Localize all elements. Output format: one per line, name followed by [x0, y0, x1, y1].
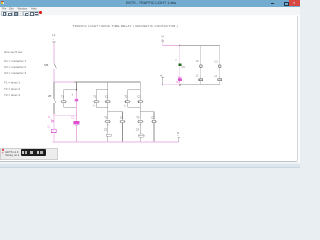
svg-text:T1 = timer 1: T1 = timer 1 — [4, 81, 20, 85]
svg-text:T2: T2 — [104, 116, 108, 120]
svg-text:C1: C1 — [47, 125, 51, 128]
svg-text:L3: L3 — [214, 75, 217, 78]
svg-text:time set 5 sec: time set 5 sec — [4, 50, 23, 54]
menu bar — [0, 7, 300, 11]
svg-text:C1: C1 — [105, 96, 109, 99]
wire lamp top bus — [180, 45, 220, 47]
svg-text:C3: C3 — [136, 128, 140, 132]
lamp rung 1 (pink, lit) — [179, 46, 181, 85]
wire supply vertical (pink) — [53, 42, 55, 63]
svg-text:T1: T1 — [48, 116, 51, 119]
maximize — [284, 2, 289, 6]
svg-text:L2: L2 — [196, 74, 199, 77]
svg-text:L1: L1 — [53, 33, 56, 37]
wire bus drop to loop1 — [75, 82, 77, 90]
red status icon — [2, 149, 4, 151]
svg-text:2B: 2B — [48, 94, 51, 98]
svg-text:C2: C2 — [104, 128, 108, 132]
svg-text:C1: C1 — [71, 116, 75, 119]
bottom window strip — [0, 162, 300, 169]
legend — [4, 50, 26, 97]
pushbutton 2B on left rung — [53, 82, 55, 99]
title bar — [0, 0, 300, 7]
svg-text:C2: C2 — [196, 60, 200, 63]
loop2 frame — [96, 90, 108, 107]
schematic SVG — [0, 0, 300, 168]
node junction — [53, 113, 54, 114]
wire top bus pink part — [54, 81, 74, 83]
loop1 frame — [64, 90, 77, 107]
app icon — [1, 1, 4, 4]
bottom bus pink — [53, 141, 179, 143]
svg-text:Deney no:1: Deney no:1 — [6, 153, 20, 157]
svg-text:C2 = contactor 2: C2 = contactor 2 — [4, 65, 26, 69]
svg-text:b: b — [72, 94, 74, 97]
toolbar — [0, 10, 300, 15]
svg-text:b: b — [124, 105, 126, 108]
dark control bar — [21, 149, 46, 156]
wire below loop1 — [75, 107, 77, 121]
node junction lamp bus — [162, 84, 163, 85]
svg-text:TRAFFIC LIGHT USING TIME RELAY: TRAFFIC LIGHT USING TIME RELAY ( MAGNETI… — [73, 24, 179, 28]
wire lamp top bus pink part — [163, 45, 180, 47]
red record circle — [39, 11, 42, 14]
window frame — [0, 0, 300, 168]
terminal N right end — [177, 137, 180, 142]
svg-text:C2: C2 — [137, 96, 141, 99]
title text — [126, 1, 186, 6]
wire below S/B (pink) — [53, 69, 55, 82]
wire top bus gray part — [74, 82, 140, 90]
canvas — [0, 16, 298, 162]
close button — [289, 0, 300, 6]
lamp rung 3 — [219, 46, 221, 85]
wire bus drop to loop2 — [107, 82, 109, 90]
svg-text:S/B: S/B — [44, 63, 48, 67]
svg-text:C3 = contactor 3: C3 = contactor 3 — [4, 71, 26, 75]
svg-text:C1: C1 — [182, 66, 186, 69]
bottom status panel — [0, 148, 58, 160]
svg-text:TL1: TL1 — [176, 81, 181, 84]
status text — [0, 146, 60, 160]
lamp TL1 lit (magenta) — [178, 77, 182, 80]
wire below loop2 split — [108, 107, 123, 119]
wire lamp bottom bus — [180, 84, 220, 86]
svg-text:C1: C1 — [120, 116, 124, 120]
svg-text:C3: C3 — [215, 61, 219, 64]
svg-text:C1 = contactor 1: C1 = contactor 1 — [4, 59, 26, 63]
svg-text:T3: T3 — [136, 116, 140, 120]
wire lamp bottom bus pink part — [163, 84, 180, 86]
loop3 frame — [127, 90, 140, 107]
lamp rung 2 — [200, 46, 202, 85]
canvas bottom edge — [0, 161, 297, 162]
svg-text:T3 = timer 3: T3 = timer 3 — [4, 93, 20, 97]
svg-text:~: ~ — [53, 38, 55, 41]
minimize — [271, 2, 274, 5]
svg-text:C2: C2 — [151, 116, 155, 120]
svg-text:b: b — [93, 105, 95, 108]
wire below loop3 split — [140, 107, 154, 119]
wire H2 pink — [54, 114, 76, 116]
svg-text:T2 = timer 2: T2 = timer 2 — [4, 87, 20, 91]
terminal tick L1 — [53, 41, 56, 43]
svg-text:c: c — [176, 58, 178, 61]
